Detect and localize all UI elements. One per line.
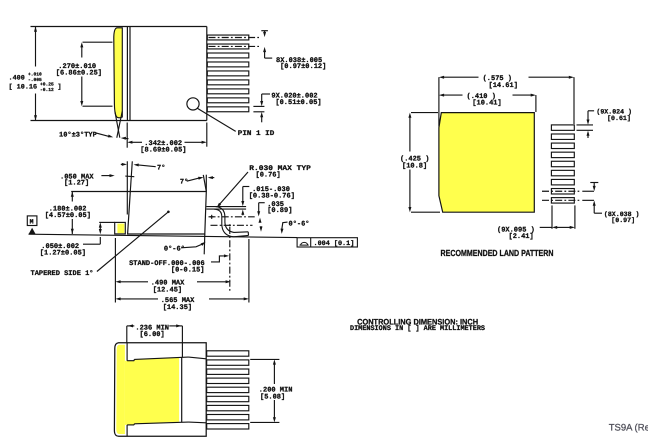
svg-text:[0.61]: [0.61] bbox=[607, 115, 631, 122]
svg-text:.004 [0.1]: .004 [0.1] bbox=[314, 240, 355, 248]
svg-text:[0.97]: [0.97] bbox=[611, 217, 635, 224]
svg-text:10°±3°TYP: 10°±3°TYP bbox=[59, 131, 97, 139]
svg-text:[10.41]: [10.41] bbox=[472, 99, 501, 108]
svg-text:[0.76]: [0.76] bbox=[256, 170, 281, 179]
svg-text:7°: 7° bbox=[157, 165, 165, 173]
svg-text:DIMENSIONS IN [ ] ARE MILLIMET: DIMENSIONS IN [ ] ARE MILLIMETERS bbox=[350, 324, 485, 333]
svg-text:0°-6°: 0°-6° bbox=[164, 246, 185, 254]
svg-text:TAPERED SIDE 1°: TAPERED SIDE 1° bbox=[31, 270, 94, 278]
svg-text:[4.57±0.05]: [4.57±0.05] bbox=[45, 211, 91, 220]
svg-text:[0.38-0.76]: [0.38-0.76] bbox=[249, 192, 295, 201]
svg-text:[6.00]: [6.00] bbox=[140, 330, 165, 339]
svg-text:[0.89]: [0.89] bbox=[267, 206, 292, 215]
svg-text:[ 10.16: [ 10.16 bbox=[9, 84, 38, 92]
svg-text:7°: 7° bbox=[180, 179, 188, 187]
svg-text:PIN 1 ID: PIN 1 ID bbox=[238, 130, 274, 138]
svg-text:[14.35]: [14.35] bbox=[163, 303, 192, 312]
svg-text:RECOMMENDED LAND PATTERN: RECOMMENDED LAND PATTERN bbox=[441, 248, 554, 258]
svg-text:-0.12: -0.12 bbox=[40, 87, 54, 93]
svg-text:[10.8]: [10.8] bbox=[402, 161, 427, 170]
svg-text:[12.45]: [12.45] bbox=[153, 285, 182, 294]
svg-text:+.010: +.010 bbox=[28, 71, 42, 77]
svg-text:[2.41]: [2.41] bbox=[509, 232, 534, 241]
svg-text:[6.86±0.25]: [6.86±0.25] bbox=[56, 68, 102, 77]
svg-text:M: M bbox=[30, 219, 34, 226]
svg-text:.400: .400 bbox=[9, 75, 25, 83]
svg-text:[0-0.15]: [0-0.15] bbox=[171, 265, 205, 274]
svg-text:[14.61]: [14.61] bbox=[489, 81, 518, 90]
svg-text:]: ] bbox=[58, 84, 62, 92]
svg-text:[0.97±0.12]: [0.97±0.12] bbox=[280, 62, 326, 71]
svg-text:[0.51±0.05]: [0.51±0.05] bbox=[275, 98, 321, 107]
svg-text:[1.27±0.05]: [1.27±0.05] bbox=[40, 248, 86, 257]
svg-text:0°-6°: 0°-6° bbox=[289, 221, 310, 229]
svg-text:+0.25: +0.25 bbox=[40, 82, 54, 88]
svg-text:[5.08]: [5.08] bbox=[260, 393, 285, 402]
svg-text:[1.27]: [1.27] bbox=[64, 179, 89, 188]
svg-text:[8.69±0.05]: [8.69±0.05] bbox=[140, 145, 186, 154]
svg-text:TS9A (Rev. B): TS9A (Rev. B) bbox=[609, 423, 648, 434]
